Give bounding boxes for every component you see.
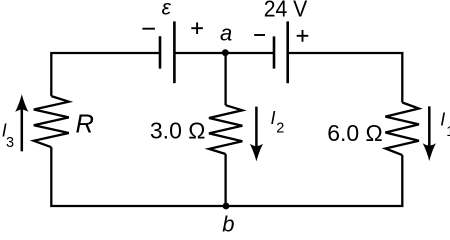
polarity plus of battery ε [191, 22, 203, 34]
svg-text:2: 2 [276, 121, 284, 137]
current arrow I2 (downward, right of resistor 3.0Ω) [250, 107, 263, 162]
svg-text:I: I [271, 108, 276, 128]
battery ε negative plate (short) [159, 36, 162, 68]
svg-text:a: a [220, 20, 232, 45]
wire node a to resistor 3.0Ω top lead [224, 53, 226, 105]
wire bottom rail (left corner through node b to right corner) [51, 147, 402, 206]
battery 24V positive plate (long) [286, 21, 289, 83]
label I1 (current) [440, 109, 450, 140]
svg-text:6.0 Ω: 6.0 Ω [327, 120, 383, 146]
label I2 (current) [271, 108, 285, 136]
svg-text:3.0 Ω: 3.0 Ω [150, 117, 206, 143]
svg-text:I: I [440, 109, 445, 129]
current arrow I1 (downward, right of resistor 6.0Ω) [423, 106, 436, 161]
polarity minus of battery 24V [254, 34, 265, 36]
wire resistor 3.0Ω bottom lead to node b [224, 154, 226, 206]
wire top-left segment (corner to battery ε minus plate) [51, 53, 160, 96]
resistor R [34, 96, 69, 147]
current arrow I3 (upward, left of resistor R) [15, 94, 28, 151]
svg-text:1: 1 [446, 124, 450, 140]
battery ε positive plate (long) [173, 21, 176, 83]
svg-text:R: R [76, 110, 94, 138]
label I3 (current) [2, 121, 14, 152]
svg-text:3: 3 [6, 135, 14, 151]
svg-text:b: b [222, 212, 234, 234]
svg-text:24 V: 24 V [264, 0, 308, 22]
node b junction dot [223, 203, 230, 210]
svg-text:ε: ε [162, 0, 172, 19]
polarity plus of battery 24V [297, 30, 309, 42]
wire top-middle segment (battery ε plus plate through node a to 24V minus plate) [175, 52, 274, 54]
polarity minus of battery ε [142, 28, 155, 30]
node a junction dot [222, 49, 229, 56]
wire top-right segment (24V plus plate to right corner) [288, 53, 403, 103]
resistor 6.0Ω [385, 103, 419, 156]
battery 24V negative plate (short) [273, 36, 276, 68]
resistor 3.0Ω [209, 105, 242, 154]
